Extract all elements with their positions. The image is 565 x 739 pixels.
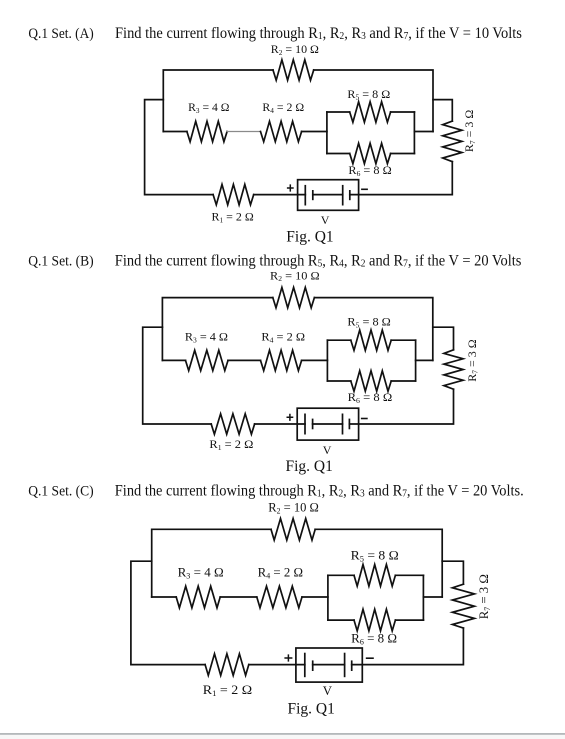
wire box top rail left: [327, 339, 350, 341]
resistor R7: [452, 584, 474, 628]
wire box top rail left: [327, 111, 350, 113]
svg-text:R5 = 8 Ω: R5 = 8 Ω: [347, 87, 390, 102]
resistor R3: [186, 350, 229, 370]
battery cell 1 long plate: [304, 653, 306, 678]
svg-text:R3 = 4 Ω: R3 = 4 Ω: [185, 330, 228, 345]
svg-text:R6 = 8 Ω: R6 = 8 Ω: [348, 163, 391, 178]
wire mid row to R3: [163, 131, 187, 133]
svg-text:V: V: [323, 443, 332, 457]
resistor R4: [257, 586, 302, 608]
svg-text:V: V: [321, 213, 330, 227]
wire R4 to parallel box: [302, 359, 328, 361]
plus terminal sign: [284, 654, 292, 661]
wire top-left + inner left vertical: [152, 529, 271, 597]
parallel box left edge: [327, 575, 329, 620]
wire box bottom rail right: [395, 619, 423, 621]
resistor R2: [273, 60, 314, 80]
resistor R5: [351, 330, 391, 350]
wire box top rail left: [328, 574, 354, 576]
wire box top rail right: [391, 111, 415, 113]
svg-text:Q.1 Set. (A): Q.1 Set. (A): [28, 26, 94, 42]
wire mid row to R3: [152, 596, 177, 598]
resistor R2: [271, 519, 315, 541]
wire top-left + inner left vertical: [162, 298, 272, 361]
wire R7 bottom to battery: [350, 162, 453, 195]
resistor R5: [350, 102, 391, 122]
wire R1 to battery first plate: [249, 664, 305, 666]
minus terminal sign: [361, 418, 368, 420]
minus terminal sign: [366, 657, 374, 659]
svg-text:Find the current flowing throu: Find the current flowing through R1, R2,…: [115, 25, 522, 42]
wire between battery cells: [313, 423, 343, 425]
svg-text:R5 = 8 Ω: R5 = 8 Ω: [347, 315, 390, 330]
battery V box: [298, 180, 359, 211]
svg-text:R1 = 2 Ω: R1 = 2 Ω: [212, 210, 254, 225]
plus terminal sign: [287, 414, 294, 421]
svg-text:Fig. Q1: Fig. Q1: [286, 228, 333, 245]
resistor R7: [444, 350, 463, 389]
wire box top rail right: [391, 339, 415, 341]
battery cell 1 short plate: [312, 419, 314, 430]
wire R7 bottom to battery: [349, 389, 453, 424]
wire box to inner right node: [414, 131, 433, 133]
svg-text:R2 = 10 Ω: R2 = 10 Ω: [268, 501, 319, 516]
wire top-right + inner right vertical: [314, 298, 432, 361]
wire R1 to battery first plate: [255, 423, 305, 425]
wire top-right + inner right vertical: [314, 70, 433, 132]
resistor R1: [205, 654, 249, 676]
svg-text:Find the current flowing throu: Find the current flowing through R1, R2,…: [115, 483, 524, 500]
bottom separator line: [0, 733, 565, 735]
wire outer-left down to R1: [145, 100, 214, 195]
wire between battery cells: [313, 664, 345, 666]
svg-text:R7 = 3 Ω: R7 = 3 Ω: [462, 110, 477, 152]
wire R1 to battery first plate: [254, 194, 306, 196]
resistor R3: [176, 586, 220, 608]
parallel box right edge: [422, 575, 424, 620]
battery cell 1 short plate: [312, 660, 314, 671]
svg-text:R1 = 2 Ω: R1 = 2 Ω: [209, 437, 253, 452]
svg-text:R6 = 8 Ω: R6 = 8 Ω: [348, 390, 393, 405]
resistor R1: [213, 184, 254, 204]
wire R4 to parallel box: [302, 596, 328, 598]
resistor R1: [211, 414, 254, 434]
resistor R6: [350, 143, 391, 163]
battery cell 1 long plate: [304, 185, 306, 206]
resistor R7: [443, 121, 462, 162]
svg-text:R1 = 2 Ω: R1 = 2 Ω: [203, 683, 252, 698]
svg-text:R5 = 8 Ω: R5 = 8 Ω: [351, 548, 399, 563]
svg-text:Find the current flowing throu: Find the current flowing through R5, R4,…: [115, 253, 522, 270]
wire between battery cells: [313, 194, 343, 196]
svg-text:R2 = 10 Ω: R2 = 10 Ω: [271, 42, 319, 57]
wire box to inner right node: [423, 596, 442, 598]
wire top-left + inner left vertical: [163, 70, 273, 132]
battery cell 2 short plate: [348, 419, 350, 430]
battery cell 2 short plate: [351, 660, 353, 671]
wire box to inner right node: [416, 359, 433, 361]
parallel box left edge: [326, 340, 328, 381]
svg-text:Q.1 Set. (C): Q.1 Set. (C): [28, 484, 94, 500]
wire box bottom rail left: [328, 619, 354, 621]
wire outer-left down to R1: [143, 327, 212, 424]
wire top-right + inner right vertical: [315, 529, 442, 597]
wire box bottom rail right: [391, 380, 415, 382]
svg-text:Fig. Q1: Fig. Q1: [286, 458, 333, 475]
svg-text:Fig. Q1: Fig. Q1: [288, 700, 335, 717]
parallel box right edge: [415, 340, 417, 381]
wire R3 to R4: [228, 359, 261, 361]
svg-text:R2 = 10 Ω: R2 = 10 Ω: [270, 268, 320, 283]
parallel box left edge: [326, 112, 328, 154]
wire box bottom rail left: [327, 380, 350, 382]
wire R7 bottom to battery: [352, 628, 464, 665]
svg-text:R3 = 4 Ω: R3 = 4 Ω: [178, 565, 224, 580]
wire box bottom rail left: [327, 153, 350, 155]
wire R3 to R4 (gray): [227, 131, 260, 133]
resistor R2: [273, 287, 315, 307]
svg-text:R3 = 4 Ω: R3 = 4 Ω: [188, 100, 229, 115]
battery cell 2 short plate: [349, 190, 351, 200]
wire mid row to R3: [162, 359, 185, 361]
minus terminal sign: [361, 188, 368, 190]
wire box top rail right: [395, 574, 423, 576]
wire to R7 top: [442, 561, 463, 584]
svg-text:R6 = 8 Ω: R6 = 8 Ω: [351, 631, 397, 646]
svg-text:V: V: [323, 684, 333, 698]
resistor R6: [351, 371, 391, 391]
wire to R7 top: [433, 100, 452, 122]
battery cell 2 long plate: [342, 185, 344, 206]
battery V box: [297, 408, 358, 440]
plus terminal sign: [287, 184, 294, 191]
resistor R4: [261, 121, 302, 141]
wire box bottom rail right: [391, 153, 415, 155]
wire R4 to parallel box: [302, 131, 327, 133]
wire to R7 top: [433, 327, 454, 350]
battery cell 2 long plate: [342, 414, 344, 435]
battery cell 1 long plate: [304, 414, 306, 435]
svg-text:R7 = 3 Ω: R7 = 3 Ω: [477, 574, 492, 619]
wire outer-left down to R1: [131, 561, 205, 664]
battery cell 1 short plate: [312, 190, 314, 200]
svg-text:Q.1 Set. (B): Q.1 Set. (B): [28, 254, 94, 270]
resistor R3: [187, 121, 227, 141]
battery cell 2 long plate: [344, 653, 346, 678]
resistor R4: [261, 350, 302, 370]
wire R3 to R4: [220, 596, 257, 598]
svg-text:R4 = 2 Ω: R4 = 2 Ω: [262, 100, 304, 115]
svg-text:R4 = 2 Ω: R4 = 2 Ω: [261, 330, 305, 345]
resistor R6: [354, 609, 395, 631]
battery V box: [296, 648, 362, 682]
resistor R5: [354, 565, 395, 587]
svg-text:R7 = 3 Ω: R7 = 3 Ω: [465, 339, 480, 381]
parallel box right edge: [413, 112, 415, 154]
svg-text:R4 = 2 Ω: R4 = 2 Ω: [258, 565, 303, 580]
